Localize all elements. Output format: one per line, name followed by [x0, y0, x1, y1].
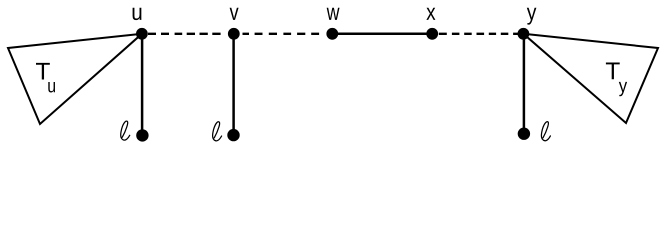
wire: solid edge w-x [332, 33, 432, 36]
subtree triangle T_y [523, 34, 658, 123]
node v [228, 28, 240, 40]
node x [426, 28, 438, 40]
leaf node under v [227, 129, 239, 141]
wire: dashed edge x-y [439, 33, 518, 35]
T of label T_u [36, 63, 50, 80]
label ell (leaf of v) [213, 122, 222, 141]
label ell (leaf of u) [121, 121, 130, 140]
node label u [133, 8, 142, 20]
node y [518, 28, 530, 40]
label ell (leaf of y) [541, 122, 550, 141]
node label x [426, 8, 435, 20]
wire: dashed edge u-v [148, 33, 221, 35]
leaf node under y [518, 128, 530, 140]
subscript y of label T_y [619, 82, 627, 96]
wire: vertical edge y-leaf [523, 34, 526, 134]
T of label T_y [606, 63, 620, 80]
node label w [327, 8, 340, 20]
node label v [230, 8, 239, 20]
wire: vertical edge u-leaf [141, 34, 144, 136]
node u [136, 28, 148, 40]
subscript u of label T_u [48, 82, 55, 92]
node label y [527, 8, 537, 25]
subtree triangle T_u [8, 34, 142, 124]
leaf node under u [136, 129, 148, 141]
node w [326, 28, 338, 40]
wire: dashed edge v-w [243, 33, 320, 35]
wire: vertical edge v-leaf [232, 34, 235, 135]
